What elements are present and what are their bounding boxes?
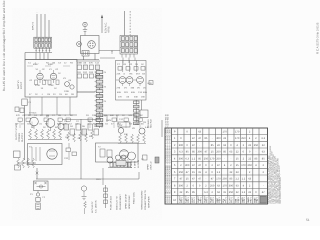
svg-text:6.3: 6.3 (204, 191, 208, 194)
svg-text:170: 170 (241, 164, 246, 167)
svg-text:PIN V: PIN V (256, 197, 259, 203)
svg-text:-: - (199, 144, 200, 147)
svg-text:PIN V: PIN V (249, 197, 252, 203)
svg-text:250: 250 (216, 151, 221, 154)
svg-text:6.3: 6.3 (179, 151, 183, 154)
svg-text:6.3: 6.3 (261, 137, 265, 140)
svg-text:170: 170 (235, 137, 240, 140)
svg-text:-: - (224, 157, 225, 160)
svg-text:51: 51 (306, 218, 310, 222)
svg-text:PIN V: PIN V (187, 197, 190, 203)
svg-text:300: 300 (185, 164, 190, 167)
svg-text:170: 170 (216, 178, 221, 181)
svg-text:-: - (205, 178, 206, 181)
svg-text:250: 250 (210, 184, 215, 187)
svg-text:300: 300 (197, 151, 202, 154)
svg-text:PIN V: PIN V (212, 197, 215, 203)
svg-text:300: 300 (179, 144, 184, 147)
svg-text:300: 300 (229, 184, 234, 187)
svg-text:NOTES: ALL VOLTAGES MEASURED T: NOTES: ALL VOLTAGES MEASURED TO CHASSIS … (168, 129, 171, 203)
svg-text:-: - (263, 184, 264, 187)
svg-text:-: - (212, 137, 213, 140)
svg-text:1.2: 1.2 (242, 178, 246, 181)
svg-text:300: 300 (179, 157, 184, 160)
svg-text:300: 300 (216, 137, 221, 140)
svg-text:-: - (230, 157, 231, 160)
svg-text:PIN V: PIN V (231, 197, 234, 203)
svg-text:300: 300 (179, 184, 184, 187)
svg-text:170: 170 (210, 157, 215, 160)
svg-text:6.3: 6.3 (185, 157, 189, 160)
svg-text:170: 170 (222, 130, 227, 133)
svg-text:PIN V: PIN V (224, 197, 227, 203)
svg-text:1.2: 1.2 (242, 191, 246, 194)
svg-text:170: 170 (222, 184, 227, 187)
svg-text:PIN V: PIN V (199, 197, 202, 203)
svg-text:1.2: 1.2 (217, 171, 221, 174)
svg-text:1.2: 1.2 (235, 178, 239, 181)
svg-text:250: 250 (254, 144, 259, 147)
svg-text:10: 10 (173, 199, 176, 202)
svg-text:250: 250 (179, 171, 184, 174)
svg-text:PIN V: PIN V (181, 197, 184, 203)
svg-text:ALL CAPACITORS IN MFD: ALL CAPACITORS IN MFD (279, 177, 282, 204)
svg-text:PIN V: PIN V (206, 197, 209, 203)
svg-text:250: 250 (229, 191, 234, 194)
svg-text:1.2: 1.2 (192, 157, 196, 160)
svg-text:-: - (255, 151, 256, 154)
svg-text:R C A S1T5-3 No 2-51 B: R C A S1T5-3 No 2-51 B (315, 22, 319, 54)
svg-text:250: 250 (247, 164, 252, 167)
svg-text:250: 250 (222, 178, 227, 181)
svg-text:PIN V: PIN V (218, 197, 221, 203)
svg-text:PIN V: PIN V (237, 197, 240, 203)
svg-text:250: 250 (241, 137, 246, 140)
svg-text:PIN V: PIN V (243, 197, 246, 203)
svg-text:PIN V: PIN V (193, 197, 196, 203)
svg-text:250: 250 (216, 157, 221, 160)
svg-text:250: 250 (204, 157, 209, 160)
svg-text:170: 170 (235, 130, 240, 133)
svg-text:Bo-145 10 watt in line 1 volt: Bo-145 10 watt in line 1 volt used stage… (2, 0, 6, 91)
